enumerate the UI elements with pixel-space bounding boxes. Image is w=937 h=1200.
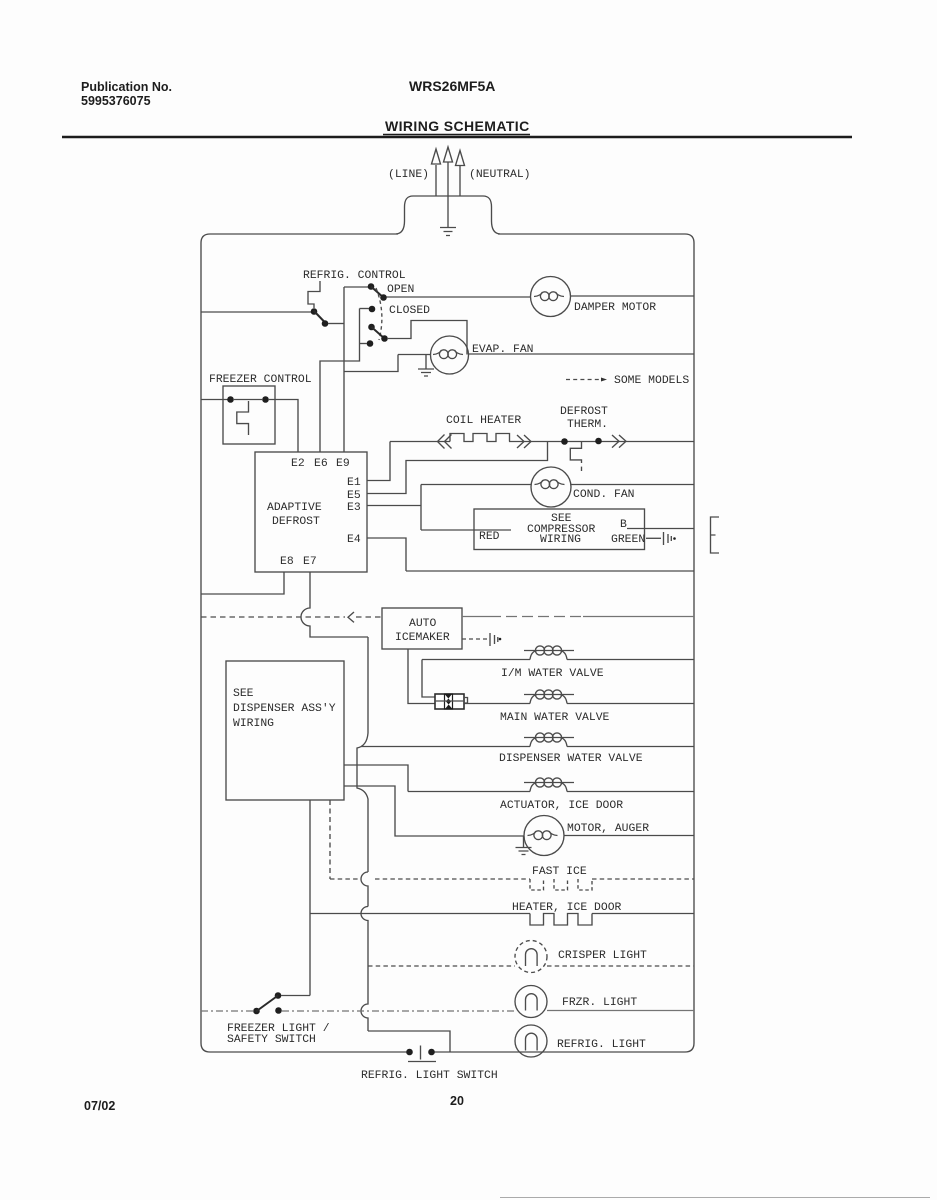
svg-text:FAST ICE: FAST ICE bbox=[532, 866, 587, 878]
freezer control wire between dots bbox=[233, 399, 263, 401]
wire E3 to compressor RED bbox=[421, 529, 511, 531]
damper motor coil bbox=[534, 292, 564, 297]
svg-text:ACTUATOR, ICE DOOR: ACTUATOR, ICE DOOR bbox=[500, 800, 623, 812]
wire dot5 to closed riser bbox=[360, 308, 370, 310]
chevrons right of coil heater bbox=[517, 435, 531, 448]
dispenser assy box bbox=[226, 661, 344, 800]
wire dot8 to riser bbox=[360, 343, 368, 345]
dispenser water valve coil bbox=[530, 738, 567, 747]
compressor box bbox=[474, 509, 645, 550]
earth ground under center arrow bbox=[440, 228, 456, 236]
evap fan ground bbox=[418, 355, 434, 376]
evap fan circle bbox=[431, 336, 469, 374]
svg-text:E9: E9 bbox=[336, 458, 350, 470]
bus section to frzr hop bbox=[361, 966, 368, 1031]
wire E1 to coil heater bbox=[367, 442, 390, 481]
svg-text:Publication No.: Publication No. bbox=[81, 80, 172, 94]
svg-text:FRZR. LIGHT: FRZR. LIGHT bbox=[562, 997, 637, 1009]
wiper dashed arc bbox=[376, 288, 382, 340]
wire auger to right border bbox=[564, 835, 694, 837]
svg-text:E5: E5 bbox=[347, 490, 361, 502]
wire evap fan to right border bbox=[469, 353, 695, 355]
wire E8 to left border bbox=[201, 572, 284, 594]
wire dispenser box to auger motor bbox=[344, 786, 524, 836]
wire E4 to y571 run bbox=[367, 538, 694, 571]
svg-text:GREEN: GREEN bbox=[611, 534, 645, 546]
wire dot7 to evap branch bbox=[387, 321, 467, 355]
svg-text:E6: E6 bbox=[314, 458, 328, 470]
svg-text:E7: E7 bbox=[303, 556, 317, 568]
wire OPEN contact to damper motor bbox=[387, 296, 531, 298]
wire freezer control to E2 bbox=[268, 400, 298, 453]
wire damper motor to right border bbox=[571, 295, 695, 297]
svg-text:COIL HEATER: COIL HEATER bbox=[446, 415, 521, 427]
coil heater resistor element bbox=[450, 434, 510, 442]
svg-text:DEFROST: DEFROST bbox=[560, 406, 608, 418]
wire I/M valve run bbox=[422, 659, 694, 661]
bus hop over heater wire bbox=[361, 907, 368, 967]
svg-text:(LINE): (LINE) bbox=[388, 169, 429, 181]
vertical I/M to connector bbox=[422, 660, 435, 698]
svg-text:E8: E8 bbox=[280, 556, 294, 568]
cond fan coil bbox=[535, 480, 565, 485]
bus tail to refrig switch bbox=[368, 1031, 450, 1052]
node contact dot3 bbox=[368, 283, 375, 290]
svg-text:THERM.: THERM. bbox=[567, 419, 608, 431]
freezer control thermostat step bbox=[237, 401, 249, 435]
wire B to right border bbox=[627, 528, 694, 530]
refrig light switch dots bbox=[406, 1049, 413, 1056]
svg-text:MAIN WATER VALVE: MAIN WATER VALVE bbox=[500, 712, 610, 724]
wire icemaker bottom to main valve bbox=[408, 649, 435, 704]
svg-text:DEFROST: DEFROST bbox=[272, 516, 320, 528]
motor auger circle bbox=[524, 816, 564, 856]
svg-text:WIRING: WIRING bbox=[540, 534, 581, 546]
I/M water valve coil bbox=[530, 651, 567, 660]
svg-text:I/M WATER VALVE: I/M WATER VALVE bbox=[501, 668, 604, 680]
dashed some-models indicator bbox=[566, 379, 599, 381]
wire E3 junction bbox=[367, 485, 421, 531]
power entry: neutral arrow bbox=[459, 166, 461, 196]
wire cond fan to right border bbox=[571, 484, 694, 486]
svg-text:B: B bbox=[620, 519, 627, 531]
node contact dot4 OPEN bbox=[380, 294, 387, 301]
refrig filament bbox=[525, 1033, 537, 1050]
svg-text:RED: RED bbox=[479, 531, 500, 543]
svg-text:E1: E1 bbox=[347, 477, 361, 489]
svg-text:WIRING: WIRING bbox=[233, 718, 274, 730]
svg-text:REFRIG. CONTROL: REFRIG. CONTROL bbox=[303, 270, 406, 282]
wire evap fan left branch bbox=[344, 355, 431, 372]
freezer control contact dots bbox=[227, 396, 234, 403]
power entry: ground arrow (center) bbox=[447, 162, 449, 227]
E7 bus with jog section bbox=[357, 637, 368, 872]
power entry: line arrow bbox=[435, 165, 437, 196]
inline connector on main valve wire bbox=[435, 694, 464, 709]
crisper light lamp (dashed circle) bbox=[515, 941, 547, 973]
main border outline with power entry bump bbox=[201, 234, 408, 1052]
dashed fast ice resistor bbox=[530, 879, 592, 890]
dashed wire icemaker to chassis ground bbox=[462, 638, 487, 640]
node contact dot6 bbox=[368, 324, 375, 331]
refrig light switch plunger bbox=[408, 1046, 436, 1062]
dashed wire left border to auto icemaker bbox=[201, 616, 382, 618]
wire main valve run bbox=[464, 703, 694, 705]
svg-text:WRS26MF5A: WRS26MF5A bbox=[409, 78, 495, 94]
node contact dot2 bbox=[322, 320, 329, 327]
adaptive defrost box bbox=[255, 452, 367, 572]
svg-text:SOME MODELS: SOME MODELS bbox=[614, 375, 689, 387]
wire dispenser valve run bbox=[361, 746, 694, 748]
svg-text:E2: E2 bbox=[291, 458, 305, 470]
chevron on icemaker dashed wire bbox=[348, 612, 354, 622]
vertical dispenser box to lights bbox=[309, 800, 311, 996]
svg-text:ICEMAKER: ICEMAKER bbox=[395, 632, 450, 644]
chevrons left of coil heater bbox=[438, 435, 452, 449]
refrig control bracket bbox=[308, 281, 320, 308]
bus hop over fast ice bbox=[361, 872, 368, 907]
defrost thermostat step element bbox=[570, 442, 581, 464]
actuator ice door coil bbox=[530, 783, 567, 792]
crisper filament bbox=[525, 949, 537, 966]
switch arm dot6-dot7 bbox=[372, 327, 385, 339]
wire switch to vertical bbox=[281, 995, 310, 997]
svg-text:5995376075: 5995376075 bbox=[81, 94, 151, 108]
auto icemaker box bbox=[382, 608, 462, 649]
svg-text:DISPENSER ASS'Y: DISPENSER ASS'Y bbox=[233, 703, 336, 715]
svg-text:E4: E4 bbox=[347, 534, 361, 546]
header rule bbox=[62, 136, 852, 139]
svg-text:REFRIG. LIGHT: REFRIG. LIGHT bbox=[557, 1039, 646, 1051]
refrig light lamp bbox=[515, 1025, 547, 1057]
chassis ground right of icemaker bbox=[489, 633, 491, 646]
motor auger coil bbox=[528, 831, 558, 836]
motor auger ground bbox=[516, 836, 532, 855]
switch arm dot3-dot4 (OPEN) bbox=[371, 287, 384, 299]
heater ice door resistor bbox=[530, 914, 592, 926]
svg-text:HEATER, ICE DOOR: HEATER, ICE DOOR bbox=[512, 902, 622, 914]
wire dispenser box to actuator bbox=[344, 765, 408, 792]
dashed fast ice run bbox=[330, 878, 694, 880]
evap fan coil bbox=[433, 350, 463, 355]
freezer light switch arm bbox=[256, 996, 278, 1012]
svg-text:20: 20 bbox=[450, 1094, 464, 1108]
main water valve coil bbox=[530, 695, 567, 704]
wire actuator run bbox=[408, 791, 694, 793]
frzr filament bbox=[525, 994, 537, 1011]
freezer control box bbox=[223, 386, 275, 444]
svg-text:COND. FAN: COND. FAN bbox=[573, 489, 635, 501]
freezer light switch dots bbox=[253, 1008, 260, 1015]
cond fan circle bbox=[531, 467, 571, 507]
closed riser vertical x359.5 bbox=[320, 309, 360, 453]
connector bracket outside right border bbox=[711, 517, 720, 553]
node contact dot7 bbox=[381, 335, 388, 342]
wire heater ice door run bbox=[310, 913, 694, 915]
svg-text:OPEN: OPEN bbox=[387, 284, 414, 296]
chevrons right of defrost therm bbox=[612, 435, 626, 448]
svg-text:AUTO: AUTO bbox=[409, 618, 437, 630]
svg-text:MOTOR, AUGER: MOTOR, AUGER bbox=[567, 823, 649, 835]
wire coil heater main run bbox=[390, 441, 694, 443]
svg-text:DAMPER MOTOR: DAMPER MOTOR bbox=[574, 302, 656, 314]
wire left border to freezer control bbox=[201, 399, 228, 401]
svg-text:SEE: SEE bbox=[233, 688, 254, 700]
wire left border to refrig control bbox=[201, 311, 312, 313]
dashed vertical dispenser box to fast ice bbox=[329, 800, 331, 879]
svg-text:DISPENSER WATER VALVE: DISPENSER WATER VALVE bbox=[499, 753, 643, 765]
wire E7 down with hop over icemaker dashed line bbox=[301, 572, 368, 637]
svg-text:CLOSED: CLOSED bbox=[389, 305, 430, 317]
svg-text:(NEUTRAL): (NEUTRAL) bbox=[469, 169, 531, 181]
wire dot2 to E9 riser bbox=[328, 323, 344, 325]
wire E5 riser to main run bbox=[367, 442, 548, 494]
node contact dot5 CLOSED bbox=[369, 306, 376, 313]
defrost thermostat contact dots bbox=[561, 438, 568, 445]
defrost thermostat capillary dash bbox=[581, 467, 583, 471]
svg-text:E3: E3 bbox=[347, 502, 361, 514]
node contact dot8 bbox=[367, 340, 374, 347]
chassis ground right of GREEN bbox=[663, 532, 665, 545]
svg-text:CRISPER LIGHT: CRISPER LIGHT bbox=[558, 950, 647, 962]
damper motor circle bbox=[531, 277, 571, 317]
dashed crisper run bbox=[368, 965, 694, 967]
bottom page artifact line bbox=[500, 1197, 930, 1199]
svg-text:07/02: 07/02 bbox=[84, 1099, 115, 1113]
E9 riser vertical bbox=[343, 287, 345, 452]
wire GREEN to chassis ground bbox=[646, 537, 661, 539]
svg-text:REFRIG. LIGHT SWITCH: REFRIG. LIGHT SWITCH bbox=[361, 1070, 498, 1082]
svg-text:WIRING SCHEMATIC: WIRING SCHEMATIC bbox=[385, 118, 530, 134]
node contact dot1 bbox=[311, 308, 318, 315]
wire icemaker upper to right border bbox=[462, 616, 490, 618]
svg-text:FREEZER CONTROL: FREEZER CONTROL bbox=[209, 374, 312, 386]
wire E3 to cond fan bbox=[421, 484, 531, 486]
wire E9 riser top to OPEN upper contact bbox=[344, 286, 369, 288]
svg-text:ADAPTIVE: ADAPTIVE bbox=[267, 502, 322, 514]
frzr light lamp bbox=[515, 986, 547, 1018]
svg-text:SAFETY SWITCH: SAFETY SWITCH bbox=[227, 1034, 316, 1046]
dash-dot freezer light line bbox=[201, 1010, 515, 1012]
switch arm dot1-dot2 bbox=[314, 311, 327, 324]
